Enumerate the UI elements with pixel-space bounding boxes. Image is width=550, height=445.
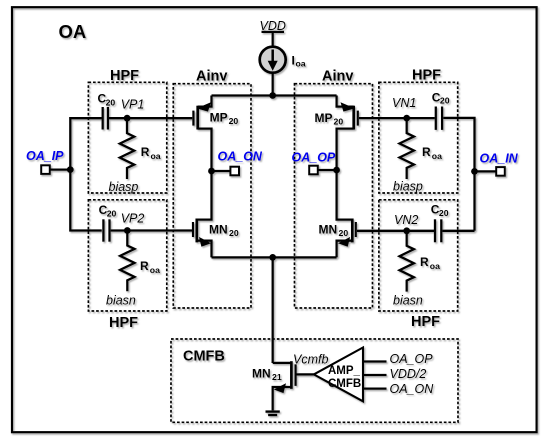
transistor MN21 bbox=[273, 361, 296, 410]
svg-text:OA_OP: OA_OP bbox=[292, 151, 336, 165]
svg-text:OA_ON: OA_ON bbox=[218, 150, 263, 164]
wire left input bus bbox=[70, 118, 102, 230]
wire current source to top rail bbox=[272, 73, 274, 96]
svg-text:20: 20 bbox=[229, 116, 239, 126]
junction bottom rail center bbox=[269, 254, 276, 261]
svg-text:HPF: HPF bbox=[109, 315, 138, 331]
MN20 label right bbox=[319, 223, 349, 239]
svg-text:VN1: VN1 bbox=[392, 96, 416, 110]
capacitor C20 top-left bbox=[103, 107, 108, 130]
port OA_IN bbox=[475, 167, 505, 176]
wire top rail bbox=[212, 94, 337, 96]
node OA_IN bbox=[471, 168, 478, 175]
wire MN20 right gate to VN2 to C20 bbox=[357, 230, 434, 232]
Roa label bottom-left bbox=[140, 259, 160, 275]
MP20 label left bbox=[210, 111, 239, 127]
svg-text:R: R bbox=[141, 145, 150, 159]
HPF block box bottom-right bbox=[379, 200, 458, 311]
wire VDD to current source bbox=[272, 32, 274, 47]
svg-text:VDD: VDD bbox=[260, 19, 286, 33]
wire amp input stub OA_OP bbox=[363, 360, 387, 362]
node VP2 bbox=[124, 227, 131, 234]
svg-text:HPF: HPF bbox=[411, 314, 440, 330]
wire C20 to right bus bbox=[443, 118, 474, 231]
svg-text:Ainv: Ainv bbox=[196, 69, 227, 85]
svg-text:R: R bbox=[420, 255, 429, 269]
svg-text:R: R bbox=[422, 145, 431, 159]
Roa label top-right bbox=[422, 145, 442, 161]
svg-text:VDD/2: VDD/2 bbox=[390, 367, 427, 381]
svg-text:I: I bbox=[292, 54, 295, 68]
wire MN21 gate to amp output bbox=[296, 373, 314, 375]
wire amp input stub OA_ON bbox=[363, 387, 387, 389]
svg-text:OA_IP: OA_IP bbox=[26, 149, 64, 163]
transistor MN20 left bbox=[193, 171, 212, 257]
port OA_OP bbox=[309, 166, 336, 175]
svg-text:biasn: biasn bbox=[393, 294, 423, 308]
VDD supply bbox=[260, 19, 286, 33]
resistor Roa top-right bbox=[400, 118, 414, 179]
C20 label top-left bbox=[98, 92, 116, 108]
C20 label bottom-right bbox=[431, 203, 449, 218]
capacitor C20 bottom-right bbox=[435, 219, 441, 242]
junction OA_IP bus bbox=[67, 166, 74, 173]
resistor Roa bottom-right bbox=[400, 231, 414, 292]
svg-text:20: 20 bbox=[229, 228, 239, 238]
transistor MP20 right bbox=[337, 96, 358, 171]
MP20 label right bbox=[315, 111, 344, 127]
svg-text:20: 20 bbox=[339, 228, 349, 238]
svg-text:20: 20 bbox=[334, 117, 344, 127]
wire C20 to VP1 to MP20 gate bbox=[109, 117, 192, 119]
svg-text:HPF: HPF bbox=[110, 68, 139, 84]
svg-text:HPF: HPF bbox=[412, 68, 441, 84]
svg-text:oa: oa bbox=[296, 59, 306, 69]
svg-text:oa: oa bbox=[151, 151, 161, 161]
svg-text:CMFB: CMFB bbox=[328, 378, 361, 390]
wire C20 to VP2 to MN20 gate bbox=[111, 229, 192, 231]
svg-text:MN: MN bbox=[319, 223, 338, 237]
Ainv block box right bbox=[295, 84, 373, 308]
ground bbox=[266, 412, 280, 415]
wire amp input stub VDD/2 bbox=[363, 374, 387, 376]
Roa label top-left bbox=[141, 145, 161, 161]
svg-text:20: 20 bbox=[107, 208, 117, 218]
svg-text:R: R bbox=[140, 259, 149, 273]
svg-text:20: 20 bbox=[106, 97, 116, 107]
svg-text:MP: MP bbox=[315, 111, 333, 125]
wire bottom rail to MN21 drain bbox=[272, 257, 274, 363]
C20 label bottom-left bbox=[99, 203, 117, 218]
port OA_ON bbox=[212, 167, 240, 176]
resistor Roa bottom-left bbox=[120, 231, 134, 292]
transistor MP20 left bbox=[193, 96, 211, 172]
svg-text:OA_IN: OA_IN bbox=[480, 152, 519, 166]
svg-text:Vcmfb: Vcmfb bbox=[293, 353, 328, 367]
node VP1 bbox=[124, 115, 131, 122]
port OA_IP bbox=[41, 165, 70, 174]
op-amp AMP_CMFB bbox=[314, 348, 363, 402]
svg-text:OA_ON: OA_ON bbox=[390, 382, 435, 396]
HPF block box top-right bbox=[379, 82, 458, 193]
svg-text:MN: MN bbox=[252, 367, 271, 381]
svg-text:20: 20 bbox=[440, 95, 450, 105]
Roa label bottom-right bbox=[420, 255, 440, 271]
wire C20 bottom-right to right bus bbox=[442, 230, 474, 232]
Ainv block box left bbox=[173, 84, 251, 308]
svg-text:biasn: biasn bbox=[106, 294, 136, 308]
Ioa label bbox=[292, 54, 306, 69]
svg-text:oa: oa bbox=[432, 151, 442, 161]
C20 label top-right bbox=[432, 90, 450, 105]
svg-text:biasp: biasp bbox=[109, 180, 139, 194]
svg-text:AMP_: AMP_ bbox=[328, 365, 361, 377]
svg-text:Ainv: Ainv bbox=[322, 69, 353, 85]
svg-text:CMFB: CMFB bbox=[183, 349, 225, 365]
svg-text:oa: oa bbox=[430, 261, 440, 271]
HPF block box top-left bbox=[88, 82, 166, 193]
svg-text:biasp: biasp bbox=[393, 180, 423, 194]
capacitor C20 top-right bbox=[436, 107, 442, 130]
svg-text:20: 20 bbox=[439, 208, 449, 218]
svg-text:MP: MP bbox=[210, 111, 228, 125]
svg-text:VP2: VP2 bbox=[121, 212, 145, 226]
CMFB block box bbox=[171, 339, 458, 422]
svg-text:21: 21 bbox=[272, 372, 282, 382]
svg-text:VP1: VP1 bbox=[121, 98, 145, 112]
HPF block box bottom-left bbox=[88, 200, 166, 311]
node OA_ON bbox=[208, 168, 215, 175]
svg-text:VN2: VN2 bbox=[394, 213, 418, 227]
svg-text:MN: MN bbox=[209, 223, 228, 237]
capacitor C20 bottom-left bbox=[103, 219, 109, 241]
wire bottom rail bbox=[212, 256, 337, 258]
transistor MN20 right bbox=[337, 170, 356, 257]
junction top rail center bbox=[269, 92, 276, 99]
node OA_OP bbox=[333, 167, 340, 174]
svg-text:OA_OP: OA_OP bbox=[390, 352, 434, 366]
svg-text:oa: oa bbox=[150, 265, 160, 275]
svg-text:OA: OA bbox=[59, 21, 87, 42]
MN21 label bbox=[252, 367, 282, 383]
MN20 label left bbox=[209, 223, 239, 239]
current source Ioa bbox=[260, 47, 286, 73]
resistor Roa top-left bbox=[120, 118, 134, 179]
node VN1 bbox=[403, 115, 410, 122]
wire MP20 right gate to VN1 to C20 bbox=[359, 117, 435, 119]
node VN2 bbox=[403, 227, 410, 234]
